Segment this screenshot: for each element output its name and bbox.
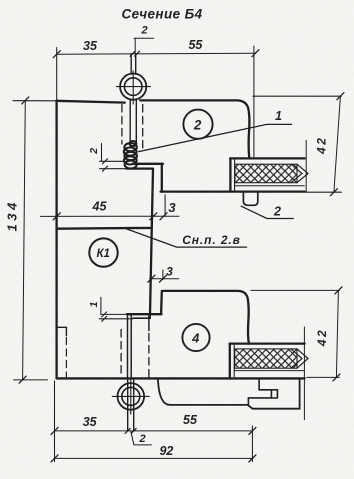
dimension 1 shelf vertical (100, 297, 102, 315)
tick bottom of 42 (330, 189, 337, 196)
hidden edge dashed right of bottom bolt (148, 334, 150, 378)
hidden edge dashed right of top bolt (142, 105, 144, 153)
channel cap inner vertical panel 4 (233, 344, 235, 377)
dimension 2 joint gap lower extension (100, 168, 128, 170)
bolt top shaft lower left (129, 100, 131, 143)
lip slot bottom (248, 397, 271, 399)
leader shelf of label 2 top (134, 37, 154, 39)
leader vertical of label 2 top (134, 38, 136, 53)
hidden edge dashed left of bottom bolt (120, 330, 122, 377)
bolt bottom shaft lower right (133, 378, 135, 431)
tick upper 1-gap (102, 312, 107, 317)
tick lower 1-gap (102, 316, 107, 321)
dimension 42 bottom line (336, 290, 338, 377)
channel cap inner vertical panel 2 (234, 159, 236, 191)
tick at bolt 2-gap right (135, 51, 140, 56)
tick upper 2-gap (103, 159, 108, 164)
tick top of 134 (22, 97, 29, 104)
panel 2 step vertical (161, 164, 163, 192)
hatch chevron tip inner panel 4 (291, 349, 302, 368)
channel top line panel 2 (230, 157, 304, 159)
dimension 42 bottom extension lower (307, 376, 340, 378)
callout circle К1 (89, 238, 117, 266)
panel 4 left edge (160, 291, 163, 314)
bottom edge of panels (57, 377, 305, 379)
bolt top shaft upper left (130, 54, 132, 74)
cut-off vertical top right (305, 140, 307, 192)
bottom dimension line 92 (55, 457, 253, 459)
K1 corner notch vertical dashed (65, 338, 67, 378)
extension left bottom dims (54, 381, 56, 462)
lip outline panel 4 (158, 378, 300, 408)
bolt top inner circle (124, 78, 142, 96)
extension right bottom dims (251, 426, 253, 462)
tick lower 2-gap (103, 166, 108, 171)
extension 1-gap thin lower (99, 318, 133, 320)
tick bottom of 134 (19, 376, 26, 383)
dimension 2 joint gap upper extension (100, 160, 125, 162)
bolt bottom crosshair vertical (130, 380, 132, 415)
extension of step thin left (102, 313, 127, 315)
insulation hatch strip panel 4 (235, 349, 297, 368)
bolt bottom outer circle (118, 383, 145, 410)
bolt top shaft upper right (135, 54, 137, 74)
channel cap outer vertical panel 2 (229, 158, 231, 190)
bolt top crosshair vertical (132, 71, 134, 104)
panel top edge left segment (57, 101, 125, 103)
hidden edge dashed left of top bolt (121, 105, 123, 145)
tick right bottom dim (249, 427, 256, 434)
panel K1 left edge (55, 101, 57, 379)
tick bottom of 42 bottom (333, 374, 340, 381)
solid stub right of bottom joint (148, 316, 150, 331)
tick left of top dim (53, 51, 60, 58)
tick middle of 45-3 (150, 213, 157, 220)
panel K1 lower step corner (133, 314, 150, 318)
panel 2 step top edge (133, 163, 163, 165)
leader of item 1 (139, 124, 292, 151)
bolt bottom inner circle (122, 387, 140, 405)
tick left of 92 (51, 455, 58, 462)
panel 2 top edge and rounded right corner (140, 100, 249, 158)
tick at bolt 2-gap bottom right (131, 428, 136, 433)
dimension 42 bottom extension upper (251, 289, 339, 291)
hatch chevron tip outer panel 2 (297, 164, 308, 183)
gasket coil (124, 141, 137, 169)
top dimension line (57, 53, 256, 54)
dimension 3 bottom line (150, 278, 179, 280)
tick at bolt 2-gap left (130, 51, 135, 56)
bolt bottom crosshair horizontal (112, 395, 149, 397)
bolt bottom shaft lower left (127, 378, 129, 431)
channel cap outer vertical panel 4 (229, 344, 231, 377)
callout circle 4 (182, 324, 209, 351)
cut-off vertical bottom right (303, 327, 305, 420)
tick right of 3 bottom (159, 275, 166, 282)
channel top line panel 4 (230, 342, 305, 344)
bolt bottom shaft upper left (127, 316, 129, 378)
panel K1 step top edge (127, 167, 153, 169)
lip slot top (259, 389, 277, 391)
bolt top crosshair horizontal (117, 86, 151, 88)
insulation hatch strip panel 2 (235, 164, 297, 183)
dimension 42 top extension lower (306, 191, 342, 193)
tick at bolt 2-gap bottom left (125, 428, 130, 433)
tick left of 3 bottom (148, 275, 155, 282)
leader of note Сн.п.2.в (125, 228, 247, 247)
extension line right top (253, 46, 255, 157)
cover tab panel 2 (243, 192, 257, 205)
extension line 134 top (13, 100, 57, 102)
extension line 134 bottom (14, 379, 48, 381)
thin liner below hatch panel 4 (235, 370, 305, 372)
lip key square (271, 390, 277, 398)
extension vertical of 3 top (164, 195, 166, 216)
callout circle 2 (183, 110, 212, 139)
tick right of top dim (252, 50, 259, 57)
hatch chevron tip outer panel 4 (297, 349, 308, 368)
leader of item 2 lower (241, 206, 293, 218)
hatch chevron tip inner panel 2 (291, 164, 302, 183)
panel 4 top edge and rounded right corner (162, 291, 249, 344)
tick left of 45 (53, 213, 60, 220)
lip slot vertical left (258, 380, 260, 390)
panel K1 top joint edge (57, 227, 152, 230)
thin liner below hatch panel 2 (235, 185, 305, 187)
extension line left top (56, 48, 58, 101)
tick right of 92 (249, 455, 256, 462)
lip slot left vertical (247, 398, 249, 405)
leader of label 2 bottom (131, 431, 152, 445)
bottom dimension line 35-2-55 (55, 430, 253, 432)
K1 corner notch horizontal (57, 326, 67, 328)
dimension 45 and 3 line (40, 215, 179, 217)
tick right of 3 (160, 213, 167, 220)
tick top of 42 (337, 93, 344, 100)
panel 4 step edge (127, 313, 162, 315)
dimension 42 top extension upper (253, 95, 341, 97)
panel 2 bottom edge (161, 190, 305, 192)
tick top of 42 bottom (335, 287, 342, 294)
K1 corner notch vertical solid (65, 327, 67, 335)
panel K1 right edge (150, 169, 153, 315)
extension vertical of 3 bottom (162, 270, 164, 280)
dimension 2 joint gap vertical shelf (101, 144, 103, 162)
dimension 42 top line (334, 96, 341, 192)
bolt bottom shaft upper right (130, 316, 132, 378)
bolt top shaft lower right (135, 100, 137, 143)
tick left bottom dim (51, 427, 58, 434)
bolt top outer circle (120, 74, 146, 100)
dimension 134 line (23, 100, 26, 379)
